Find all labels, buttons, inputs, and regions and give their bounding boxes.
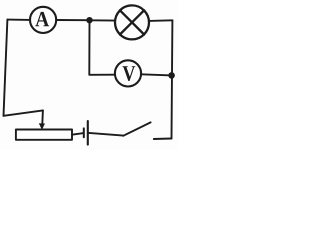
voltmeter V xyxy=(115,60,141,86)
junction dot right xyxy=(168,72,175,79)
lamp (circle with X) xyxy=(115,5,149,39)
battery negative plate (short) xyxy=(83,128,85,137)
rheostat slider arrowhead xyxy=(39,123,45,130)
node junction dot xyxy=(86,17,92,23)
wire voltmeter to right junction xyxy=(141,74,168,75)
wire voltmeter branch (down from node, right to voltmeter) xyxy=(89,21,115,75)
wire battery to switch pivot xyxy=(89,133,123,136)
wire rheostat to battery xyxy=(72,133,83,135)
wire node to lamp xyxy=(92,19,116,21)
wire right vertical xyxy=(171,20,174,138)
wire ammeter to node xyxy=(56,19,87,21)
battery positive plate (long) xyxy=(87,121,89,145)
wire left vertical xyxy=(4,20,8,116)
wire top-left horizontal xyxy=(7,19,30,21)
resistor (rheostat) box xyxy=(16,130,72,140)
rheostat slider stem xyxy=(41,110,44,124)
ammeter A xyxy=(30,7,56,33)
wire lamp to top-right corner xyxy=(149,19,173,22)
wire bottom-left horizontal xyxy=(4,110,43,115)
switch blade (open) xyxy=(123,122,150,135)
wire switch contact to bottom-right corner xyxy=(154,138,172,141)
